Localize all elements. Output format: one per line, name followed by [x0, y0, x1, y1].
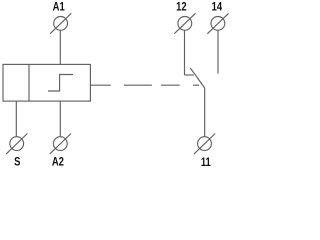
wire 11: [204, 88, 206, 137]
svg-text:A1: A1: [53, 1, 65, 14]
terminal A1: [50, 13, 71, 33]
mechanical link dash 2: [161, 84, 180, 86]
svg-text:12: 12: [176, 1, 187, 14]
terminal 11: [194, 134, 215, 154]
svg-text:A2: A2: [52, 156, 64, 169]
wire A1 to box: [59, 30, 61, 64]
svg-text:14: 14: [212, 1, 223, 14]
mechanical link dash 1: [124, 84, 152, 86]
wire 14: [217, 30, 219, 73]
wire A2: [59, 101, 61, 137]
fixed contact 12: [185, 74, 194, 76]
terminal 14: [207, 13, 228, 33]
box divider: [28, 64, 30, 101]
mechanical link dash 3: [193, 84, 199, 86]
wire 12: [184, 30, 186, 75]
svg-text:S: S: [14, 156, 20, 169]
function box U1: [3, 64, 90, 101]
wire S: [15, 101, 17, 137]
terminal S: [6, 134, 27, 154]
switch lever: [190, 68, 204, 88]
terminal 12: [174, 13, 195, 33]
mechanical link solid lead: [90, 84, 110, 86]
terminal A2: [50, 134, 71, 154]
step function symbol: [48, 75, 73, 92]
svg-text:11: 11: [201, 156, 211, 169]
